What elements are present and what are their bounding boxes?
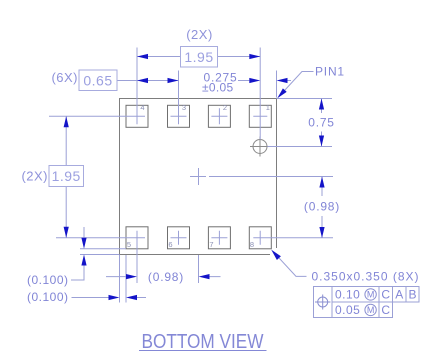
svg-text:1.95: 1.95: [52, 168, 81, 184]
dimension 1.95 left arrows: [64, 116, 69, 127]
dimension 0.275 tail: [288, 80, 292, 82]
svg-text:6: 6: [168, 240, 172, 249]
svg-text:(0.100): (0.100): [27, 273, 69, 287]
pad 7 centerlines: [211, 231, 227, 245]
PIN1 leader: [279, 72, 314, 98]
pad size leader line: [274, 252, 307, 276]
pad 8 centerlines with right extension: [253, 231, 333, 245]
package center mark: [190, 168, 206, 185]
svg-text:0.65: 0.65: [83, 73, 112, 89]
svg-text:7: 7: [209, 240, 213, 249]
svg-text:4: 4: [140, 103, 144, 112]
svg-text:(6X): (6X): [51, 70, 78, 85]
pad 6: [168, 227, 190, 249]
pad 3: [168, 105, 190, 127]
svg-text:±0.05: ±0.05: [202, 81, 233, 95]
extension line package center right: [209, 176, 333, 178]
modifier M circle top: [365, 289, 376, 300]
svg-text:(0.98): (0.98): [304, 200, 340, 214]
dimension 0.275 line left: [238, 80, 249, 82]
dimension 1.95 left box: [49, 166, 84, 187]
extension line pad5 left edge below: [125, 255, 127, 303]
extension line package left edge below: [119, 255, 121, 303]
svg-text:PIN1: PIN1: [315, 65, 345, 79]
dimension (0.98) right arrows: [319, 177, 324, 188]
svg-text:1.95: 1.95: [184, 49, 213, 65]
extension line package top right: [277, 98, 333, 100]
dimension (0.100) first leader: [71, 227, 84, 280]
svg-text:(2X): (2X): [186, 27, 213, 42]
svg-text:M: M: [367, 290, 375, 300]
extension line package centerline below: [198, 255, 200, 283]
pad 2 centerlines: [211, 108, 227, 124]
dimension (0.100) second leader: [72, 297, 147, 299]
PIN1 arrowhead: [277, 88, 286, 98]
pad 5 centerlines with extensions: [56, 231, 145, 283]
dimension 1.95 top arrows: [137, 54, 148, 59]
pad 7: [208, 227, 230, 249]
svg-text:C: C: [381, 303, 390, 317]
dimension 0.275 arrows: [249, 78, 260, 83]
pad 4: [126, 105, 148, 127]
svg-text:B: B: [408, 287, 416, 301]
svg-text:0.75: 0.75: [308, 116, 335, 130]
svg-text:0.05: 0.05: [335, 303, 360, 317]
svg-text:0.10: 0.10: [335, 287, 360, 301]
svg-text:C: C: [381, 287, 390, 301]
extension line indicator right: [268, 146, 333, 148]
feature control frame cells: [314, 287, 420, 318]
dimension (0.98) right lines: [321, 177, 323, 239]
svg-text:3: 3: [182, 103, 186, 112]
svg-text:M: M: [367, 305, 375, 315]
dimension 0.75 arrows: [319, 99, 324, 110]
pad 4 centerlines with left extension: [49, 48, 145, 125]
svg-text:5: 5: [127, 240, 131, 249]
dimension 1.95 top box: [181, 47, 218, 68]
dimension (0.98) bottom lines: [106, 276, 221, 278]
dimension 0.65 arrows: [137, 78, 148, 83]
modifier M circle bottom: [365, 304, 376, 315]
dimension 1.95 top line: [137, 56, 260, 58]
dimension 0.65 box: [79, 70, 117, 91]
pad 5: [126, 227, 148, 249]
svg-text:(0.100): (0.100): [27, 290, 69, 304]
dimension (0.98) bottom arrows: [126, 274, 137, 279]
position symbol: [318, 297, 328, 307]
svg-text:0.350x0.350 (8X): 0.350x0.350 (8X): [312, 270, 419, 284]
dimension (0.100) first arrows: [81, 238, 86, 249]
svg-text:(2X): (2X): [21, 169, 48, 184]
pad 3 centerlines: [171, 71, 187, 125]
dimension 0.75 lines: [321, 99, 323, 147]
extension line package right edge top: [276, 71, 278, 98]
pad 8: [249, 227, 271, 249]
pad size leader arrowhead: [271, 250, 281, 260]
dimension 0.65 line: [117, 80, 179, 82]
pad 6 centerlines: [171, 231, 187, 245]
pad 1 centerlines with extension to indicator: [253, 48, 267, 140]
pin1 indicator cross: [250, 137, 270, 157]
extension line package bottom edge left: [80, 254, 120, 256]
svg-text:A: A: [395, 287, 403, 301]
pad 2: [208, 105, 230, 127]
title underline: [139, 350, 267, 352]
svg-text:(0.98): (0.98): [148, 270, 184, 284]
svg-text:1: 1: [266, 103, 270, 112]
dimension (0.100) second arrows: [109, 295, 120, 300]
dimension 1.95 left lines: [65, 116, 67, 238]
extension line pad5 bottom edge left: [80, 248, 126, 250]
pad 1: [249, 105, 271, 127]
pin1 indicator circle: [253, 140, 267, 154]
svg-text:8: 8: [250, 240, 254, 249]
svg-text:2: 2: [223, 103, 227, 112]
package body outline: [120, 99, 277, 255]
svg-text:BOTTOM VIEW: BOTTOM VIEW: [142, 331, 264, 353]
